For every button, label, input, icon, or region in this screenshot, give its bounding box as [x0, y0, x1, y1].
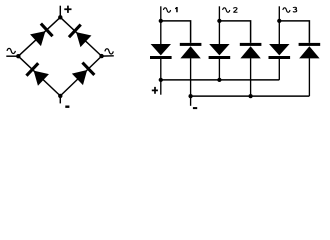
wire phase 1 top link and right drop: [161, 21, 191, 43]
wire bridge right AC stub: [102, 55, 114, 57]
node - bus junction leg 2: [248, 94, 252, 98]
label phase 1 AC wave: [163, 8, 170, 13]
wire + bus: [161, 79, 279, 81]
diode D4 bridge lower-right: [71, 61, 95, 85]
node bridge top (+): [58, 15, 62, 19]
wire bridge branch bottom-to-left: [18, 56, 60, 96]
node phase 3 input junction: [277, 19, 281, 23]
label phase 1 digit 1: [175, 7, 178, 12]
wire phase 3 right diode anode lead: [308, 58, 310, 96]
wire phase 1 input drop: [160, 6, 162, 21]
label rectifier - output: [193, 107, 197, 109]
wire phase 2 left diode cathode lead: [218, 59, 220, 80]
wire bridge branch bottom-to-right: [60, 56, 101, 96]
wire bridge - output stub: [59, 96, 61, 104]
wire phase 3 left diode anode lead: [278, 21, 280, 44]
node bridge bottom (-): [58, 94, 62, 98]
wire phase 3 input drop: [278, 6, 280, 21]
diode D5 phase 1 to + bus: [150, 44, 172, 59]
wire bridge branch right-to-top: [60, 17, 101, 56]
node phase 2 input junction: [217, 19, 221, 23]
diode D8 - bus to phase 2: [240, 43, 262, 59]
wire phase 3 left diode cathode lead: [278, 59, 280, 80]
wire + output stub: [160, 80, 162, 95]
wire phase 1 right diode anode lead: [190, 58, 192, 96]
node + bus junction leg 1: [159, 78, 163, 82]
label bridge +: [64, 6, 71, 13]
wire bridge + output stub: [59, 6, 61, 18]
node - bus junction leg 1: [188, 94, 192, 98]
diode D10 - bus to phase 3: [299, 43, 321, 59]
wire - output stub: [190, 96, 192, 106]
label phase 2 digit 2: [233, 8, 237, 13]
label bridge left AC wave: [7, 48, 15, 53]
diode D1 bridge upper-left: [30, 23, 54, 47]
diode D2 bridge upper-right: [68, 24, 92, 48]
wire phase 1 left diode anode lead: [160, 21, 162, 44]
wire phase 2 top link and right drop: [219, 21, 250, 43]
node + bus junction leg 2: [217, 78, 221, 82]
wire bridge left AC stub: [6, 55, 18, 57]
label phase 3 AC wave: [283, 8, 290, 13]
node phase 1 input junction: [159, 19, 163, 23]
label phase 3 digit 3: [293, 7, 297, 12]
label bridge right AC wave: [105, 49, 113, 54]
label bridge -: [65, 106, 69, 108]
wire phase 2 left diode anode lead: [218, 21, 220, 44]
diode D6 - bus to phase 1: [180, 43, 202, 59]
wire phase 1 left diode cathode lead: [160, 59, 162, 80]
wire phase 2 input drop: [218, 6, 220, 21]
diode D9 phase 3 to + bus: [269, 44, 291, 59]
diode D7 phase 2 to + bus: [209, 44, 231, 59]
wire bridge branch left-to-top: [18, 17, 60, 56]
node bridge left AC: [16, 54, 20, 58]
label rectifier + output: [152, 87, 158, 94]
wire phase 3 top link and right drop: [279, 21, 309, 43]
wire - bus: [191, 95, 310, 97]
label phase 2 AC wave: [223, 8, 230, 13]
wire phase 2 right diode anode lead: [250, 58, 252, 96]
diode D3 bridge lower-left: [25, 62, 49, 86]
node bridge right AC: [99, 54, 103, 58]
